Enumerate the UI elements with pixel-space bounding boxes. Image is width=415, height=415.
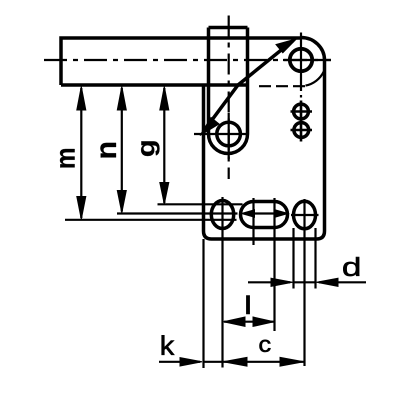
phantom arm hidden line	[259, 85, 309, 87]
dimension g line	[163, 88, 165, 203]
wire arm bottom edge	[61, 83, 248, 87]
dimension c arrowhead left	[223, 357, 247, 366]
g extension line	[158, 203, 243, 205]
label g	[141, 141, 159, 156]
small hole H1	[294, 104, 309, 119]
dimension m line	[80, 88, 82, 218]
dimension n arrowhead bottom	[117, 191, 126, 213]
diagonal arrowhead upper	[276, 39, 297, 53]
dimension l arrowhead left	[224, 317, 246, 326]
dimension l arrowhead right	[253, 317, 274, 326]
k extension / plate edge extension	[202, 239, 204, 368]
label k	[162, 335, 175, 355]
hole row centerline / n extension	[117, 212, 238, 214]
tick right hole center / c extension	[303, 199, 305, 366]
pivot hole vertical centerline	[300, 33, 302, 98]
d extension right	[314, 228, 316, 289]
small hole H2	[294, 123, 309, 138]
dimension m arrowhead top	[77, 87, 86, 111]
dimension k arrow	[159, 361, 223, 363]
slot arrowhead left	[242, 210, 255, 217]
pivot hole U1	[290, 49, 312, 71]
dimension c	[224, 361, 304, 363]
dimension g arrowhead bottom	[160, 183, 169, 205]
pivot hole horizontal centerline solid segment	[283, 59, 331, 61]
dimension d	[248, 281, 366, 283]
pivot bar hole horizontal centerline	[194, 133, 249, 135]
slot centerline with arrows	[246, 212, 284, 214]
phantom arm end arc	[306, 72, 324, 86]
label c	[260, 340, 271, 352]
mounting hole right	[294, 201, 316, 229]
plate top-right corner arc	[301, 38, 325, 61]
dimension g arrowhead top	[160, 87, 169, 111]
dimension c arrowhead right	[280, 357, 304, 366]
tick slot left arc center	[252, 198, 254, 245]
pivot bar hole vertical centerline solid segment	[228, 113, 230, 159]
diagonal arrowhead lower	[200, 118, 219, 136]
m baseline extension	[65, 219, 237, 221]
dimension d arrowhead right	[317, 278, 339, 286]
base plate outline	[204, 60, 325, 239]
pivot bar hole	[217, 122, 241, 146]
mounting hole left	[211, 201, 233, 229]
dimension d arrowhead left	[271, 278, 293, 286]
dimension n arrowhead top	[117, 87, 126, 111]
diagonal swing arrow	[203, 41, 293, 133]
small holes crosshair	[291, 101, 313, 142]
label l	[246, 296, 249, 315]
dimension m arrowhead bottom	[77, 197, 86, 220]
right hole horizontal centerline	[291, 214, 319, 216]
mounting slot	[241, 202, 288, 228]
d extension left	[292, 228, 294, 289]
pivot bar foot arc	[209, 134, 248, 154]
tick slot right arc center / l extension	[273, 198, 275, 331]
dimension n line	[121, 88, 123, 212]
bar centerline (dash-dot)	[228, 16, 230, 180]
slot arrowhead right	[275, 210, 288, 217]
dimension k arrowhead	[180, 358, 202, 366]
vertical pivot bar	[209, 28, 248, 135]
label n	[100, 143, 116, 158]
arm centerline (dash-dot)	[44, 59, 331, 61]
dimension l	[224, 321, 274, 323]
clamp arm (horizontal bar) outline	[61, 38, 302, 85]
label d	[343, 257, 359, 276]
tick left hole center	[221, 197, 223, 368]
label m	[60, 149, 75, 168]
